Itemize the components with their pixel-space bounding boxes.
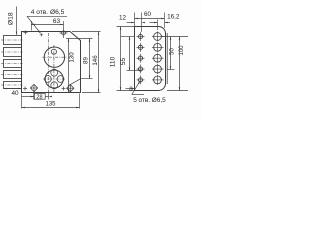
svg-text:110: 110 — [109, 56, 116, 67]
svg-text:5 отв. Ø6,5: 5 отв. Ø6,5 — [133, 97, 166, 104]
svg-text:28: 28 — [36, 94, 42, 100]
svg-text:60: 60 — [144, 11, 152, 18]
svg-text:89: 89 — [83, 57, 90, 64]
svg-text:63: 63 — [53, 18, 61, 25]
svg-text:Ø18: Ø18 — [7, 12, 14, 25]
svg-text:16,2: 16,2 — [167, 13, 180, 20]
svg-text:55: 55 — [120, 58, 127, 66]
svg-text:12: 12 — [119, 15, 127, 22]
svg-text:8: 8 — [129, 86, 133, 93]
svg-text:100: 100 — [179, 45, 185, 56]
svg-text:4 отв. Ø6,5: 4 отв. Ø6,5 — [31, 9, 65, 16]
svg-text:40: 40 — [11, 90, 19, 97]
svg-text:130: 130 — [69, 52, 76, 63]
svg-text:135: 135 — [45, 102, 56, 108]
svg-text:146: 146 — [92, 55, 99, 66]
